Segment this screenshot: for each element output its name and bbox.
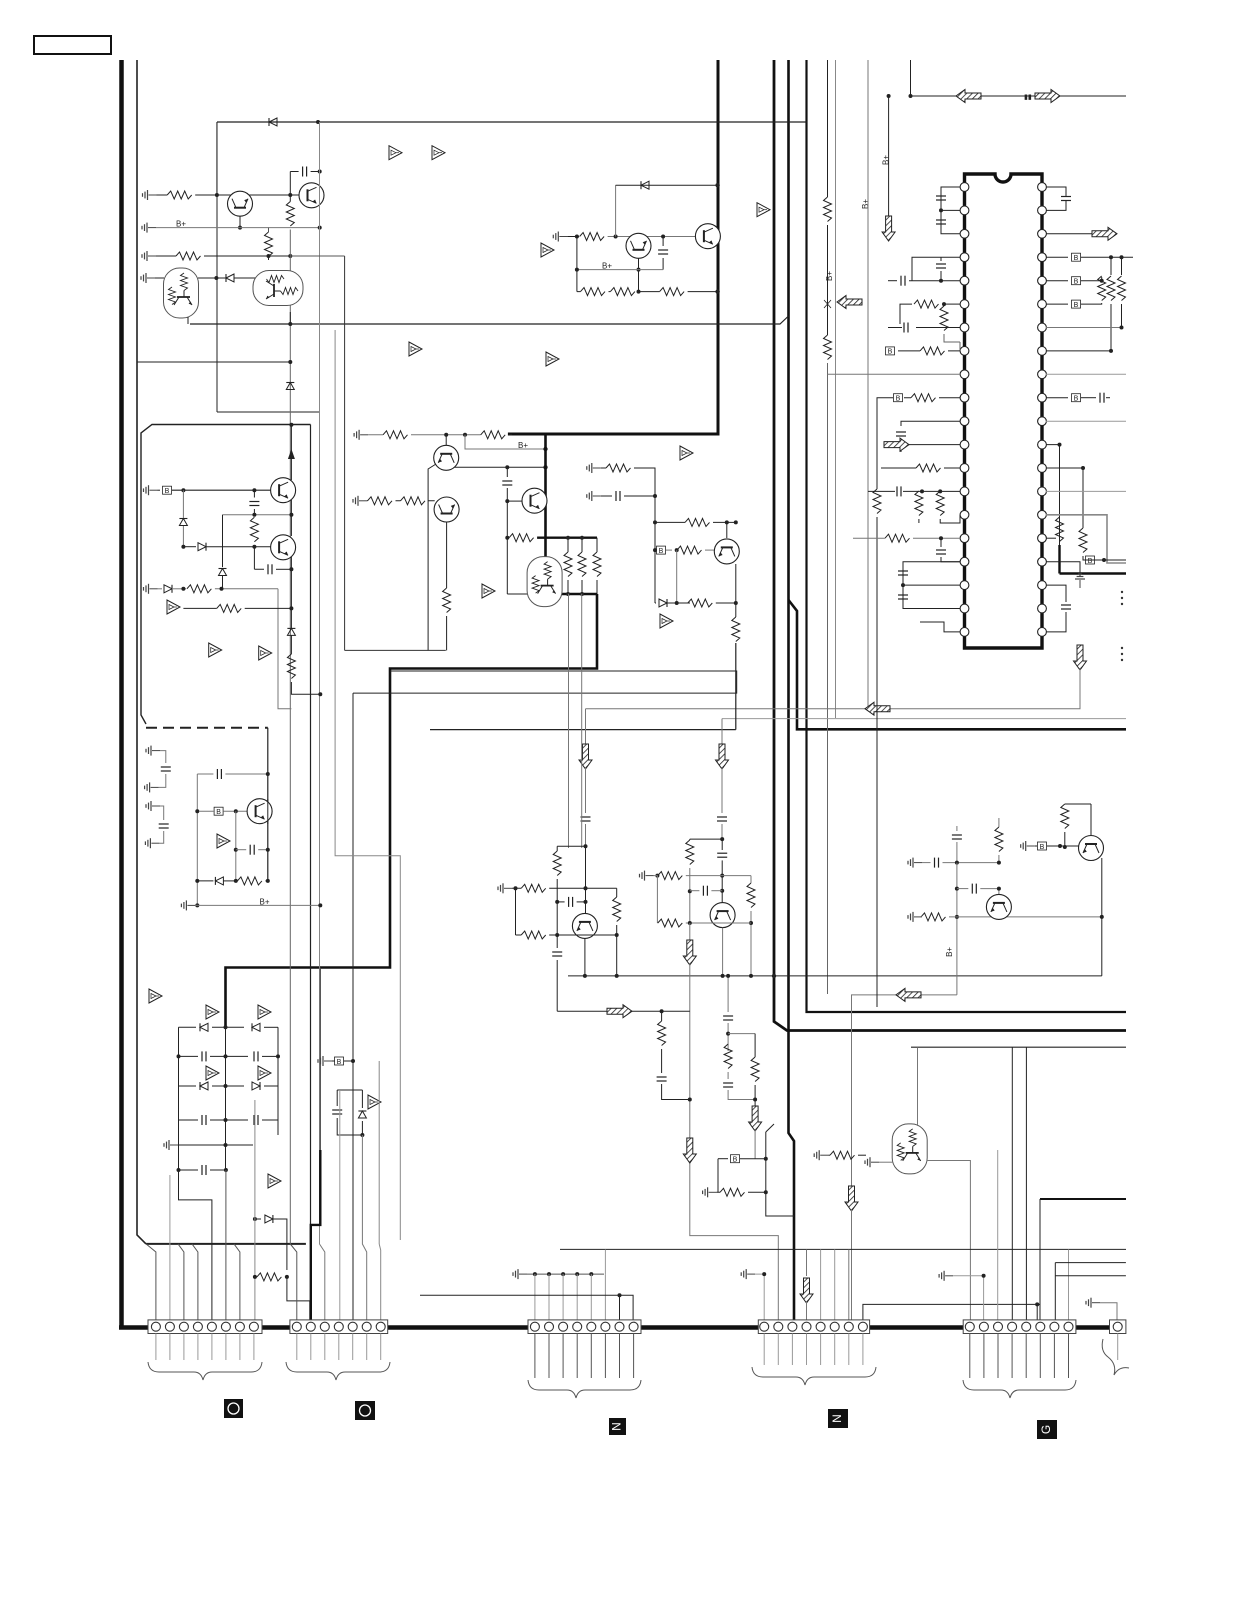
resistor R4 vertical inline xyxy=(289,172,291,202)
wire bottom bus thick xyxy=(119,1325,1126,1330)
resistor R32 pin8 xyxy=(920,347,945,355)
capacitor C11 xyxy=(936,220,946,224)
resistor R63 vertical xyxy=(998,818,1000,827)
capacitor C33 xyxy=(957,888,968,890)
wire Q13 emitter xyxy=(584,939,586,976)
capacitor C25 xyxy=(557,901,564,903)
wire C3 feed row xyxy=(527,1273,604,1275)
wire x690 down gray xyxy=(690,963,779,1320)
arrow down x690 xyxy=(683,940,696,965)
resistor R20 on bus F xyxy=(824,197,832,222)
wire B+ row xyxy=(156,227,320,229)
capacitor C45 row xyxy=(235,811,237,881)
resistor R1 xyxy=(167,191,192,199)
diode D12 xyxy=(252,1023,260,1031)
wire mid band y730 xyxy=(430,643,736,730)
wire thick rail to resistors xyxy=(537,537,597,539)
wire y976 left part xyxy=(568,975,751,977)
B+ cluster low xyxy=(718,1158,728,1160)
wire C1 pin drops from bus xyxy=(146,1244,156,1320)
resistor R45 vertical col xyxy=(556,846,558,851)
resistor R14 xyxy=(257,1273,282,1281)
arrow down x690 second xyxy=(683,1138,696,1163)
resistor R18 xyxy=(509,534,534,542)
transistor Q12 xyxy=(247,799,272,824)
capacitor C13 xyxy=(916,327,960,329)
ground chain 1 xyxy=(146,746,160,756)
wire gray y993 with left arrow xyxy=(852,995,957,1186)
transistor Q14 xyxy=(710,903,735,928)
diode D8 xyxy=(158,588,163,590)
wire pin r9 gray xyxy=(1046,373,1126,375)
connector CN3 xyxy=(528,1320,641,1334)
diode D15 row xyxy=(255,1218,261,1220)
arrow left on header xyxy=(956,90,981,103)
resistor R61 xyxy=(401,497,426,505)
resistor R29 vertical xyxy=(732,617,740,642)
wire long gray vertical from R3 row xyxy=(289,230,291,1245)
wire matrix exits xyxy=(179,1170,212,1320)
resistor R62 vertical xyxy=(616,888,618,897)
ground G23 C5 xyxy=(939,1271,953,1281)
transistor Q3 digital xyxy=(164,268,199,318)
wire top vertical bus A xyxy=(508,60,718,434)
wire Q17 out xyxy=(927,1161,970,1321)
wire C2 pin4 gray xyxy=(339,1090,341,1320)
B+ boxed mid xyxy=(654,549,655,551)
B+ boxed T14 xyxy=(1038,842,1047,851)
wire C4 pin7 xyxy=(848,1249,850,1320)
diode D7 xyxy=(222,515,224,567)
wire C4 pin8 via y1304 xyxy=(863,1304,1040,1320)
resistor R2 vertical xyxy=(268,228,270,232)
diode D1 on y122 xyxy=(269,118,277,126)
wire C5 pin8 xyxy=(1068,1249,1070,1320)
B+ boxed label xyxy=(158,489,161,491)
wire y1044 double xyxy=(911,1046,1126,1048)
wire C2 pin1 chamfer xyxy=(290,1244,297,1320)
wire box2 right edge xyxy=(267,728,269,881)
resistor R36 vertical xyxy=(936,491,944,516)
arrow left small x849 xyxy=(837,296,862,309)
wire Q11 base row xyxy=(183,546,196,548)
resistor R56 xyxy=(921,913,946,921)
transistor Q2 xyxy=(299,183,324,208)
wire y362 xyxy=(137,361,290,363)
ground G2 xyxy=(142,223,156,233)
diode D6 xyxy=(198,543,206,551)
ground chain 4 xyxy=(145,838,159,848)
resistor R54 vertical xyxy=(751,1057,759,1082)
wire C5 pin3 xyxy=(997,1150,999,1320)
transistor Q15 xyxy=(986,894,1011,919)
svg-text:B+: B+ xyxy=(861,199,870,209)
svg-text:B+: B+ xyxy=(825,271,834,281)
wire IC feeder x888 xyxy=(888,96,890,216)
resistor R3 xyxy=(176,252,201,260)
wire y1011 with arrow xyxy=(557,1010,607,1012)
wire pin r3 arrow xyxy=(1046,233,1092,235)
arrow right on header xyxy=(1035,90,1060,103)
ground G9 xyxy=(164,1140,178,1150)
capacitor C42 xyxy=(506,467,508,477)
wire pin r16 xyxy=(1046,537,1056,539)
capacitor C10 xyxy=(936,196,946,200)
wire gray pin2 C1 xyxy=(169,1175,171,1320)
wire pin r12 xyxy=(1046,445,1060,545)
svg-text:N: N xyxy=(610,1422,624,1431)
transistor Q6 xyxy=(695,224,720,249)
arrow tri pair box1 xyxy=(209,643,222,657)
ground G24 C6 xyxy=(1086,1298,1100,1308)
wire gray x379 xyxy=(378,1061,380,1244)
wire Q9 vertical x676 xyxy=(676,550,678,603)
label tag P3 xyxy=(609,1418,626,1435)
resistor R41 vertical xyxy=(1107,276,1115,301)
ground chain 3 xyxy=(146,801,160,811)
resistor R44 vertical xyxy=(1079,528,1087,553)
brace CN5 xyxy=(963,1380,1076,1398)
B+ branch xyxy=(465,435,546,449)
ground G10 xyxy=(354,430,368,440)
B+ pin r5 xyxy=(1046,280,1068,282)
wire Q20 emitter left xyxy=(428,464,436,650)
capacitor C23 xyxy=(601,495,612,497)
wire pin r7 xyxy=(1046,327,1122,329)
wire row B xyxy=(223,514,292,516)
capacitor C40 xyxy=(253,490,255,497)
wire diode branch xyxy=(615,185,617,236)
wire pin r17 ground xyxy=(1046,562,1080,576)
resistor R53 vertical xyxy=(724,1044,732,1069)
matrix frame verticals xyxy=(179,1027,279,1170)
wire C3 pin8 corner xyxy=(420,1295,633,1320)
capacitor C32 xyxy=(922,862,931,864)
capacitor C28 xyxy=(657,1077,667,1081)
ground G15 xyxy=(703,1187,717,1197)
wire pin4 stub xyxy=(912,257,960,281)
capacitor C21 xyxy=(1100,393,1104,403)
capacitor C41 xyxy=(254,547,264,570)
wire Q5 emitter xyxy=(638,258,640,291)
wire bottom rail xyxy=(507,593,532,595)
resistor R10 xyxy=(187,585,212,593)
wire Q12 rails xyxy=(267,799,269,824)
resistor R60 xyxy=(368,497,393,505)
ground G5 xyxy=(553,232,567,242)
resistor R21 on bus F xyxy=(824,335,832,360)
ground chain 2 xyxy=(145,782,159,792)
wire bus E branch xyxy=(789,600,1127,729)
capacitor C12 xyxy=(936,264,946,268)
resistor R23 vertical xyxy=(578,552,586,577)
wire long mid line y324 xyxy=(190,316,789,324)
resistor R5 xyxy=(567,236,579,238)
ground G4 xyxy=(141,273,155,283)
arrow tri xyxy=(368,1095,381,1109)
wire x765 connect xyxy=(766,1132,794,1216)
ground G1 xyxy=(143,190,157,200)
arrow tri xyxy=(660,614,673,628)
wire left rail xyxy=(576,237,578,292)
wire C2 pin3 xyxy=(320,1244,325,1320)
resistor R22 vertical xyxy=(564,552,572,577)
label tag P4 xyxy=(828,1409,848,1428)
arrow below IC xyxy=(1074,645,1087,670)
ground G11 xyxy=(587,463,601,473)
capacitor C31 x755 xyxy=(754,1034,756,1057)
wire Q10 collector up arrow xyxy=(290,425,292,480)
wire pin11 cap xyxy=(901,421,960,426)
capacitor C22 xyxy=(1061,605,1071,609)
resistor R46 xyxy=(521,884,546,892)
diode D11 xyxy=(179,1026,197,1028)
wire C4 pin5 arrow xyxy=(806,1249,808,1276)
wire thin vertical F xyxy=(827,60,829,197)
resistor R16 xyxy=(481,431,506,439)
ground G14 xyxy=(640,871,654,881)
brace CN6 xyxy=(1102,1339,1129,1375)
arrow tri box2 xyxy=(217,834,230,848)
wire Q13 bottom row xyxy=(516,888,522,935)
arrow tri xyxy=(167,600,180,614)
B+ boxed diode label xyxy=(214,807,223,816)
capacitor C16 xyxy=(936,550,946,554)
arrow left y708 xyxy=(865,702,890,715)
resistor R31 vertical xyxy=(940,306,948,331)
ground xyxy=(1075,574,1085,588)
wire CN1 tails xyxy=(156,1334,254,1361)
arrow tri scatter top xyxy=(389,146,402,160)
resistor R49 vertical xyxy=(750,876,752,883)
resistor R57 vertical xyxy=(1061,804,1069,829)
diode D16 xyxy=(358,1111,366,1118)
wire C3 pin verticals xyxy=(535,1274,606,1320)
wire CN5 tails xyxy=(970,1334,1069,1379)
resistor R51 vertical xyxy=(661,1011,663,1021)
wire C2 pin6 xyxy=(362,1135,366,1320)
wire top feed to header line xyxy=(911,60,1127,96)
title box xyxy=(34,36,111,54)
ground G22 C4 xyxy=(741,1269,755,1279)
label tag P5 xyxy=(1037,1420,1057,1439)
B+ pin r10 xyxy=(1046,397,1068,399)
diode D17 xyxy=(655,602,656,604)
capacitor C29 x727 xyxy=(727,976,729,1012)
wire thick branch r16 xyxy=(1060,545,1127,574)
B+ boxed r16 xyxy=(1086,556,1095,565)
connector CN5 xyxy=(963,1320,1076,1334)
wire thick collector rail vertical xyxy=(544,435,547,566)
wire C2 pin5 xyxy=(352,1244,354,1320)
wire thick feed to matrix xyxy=(226,594,598,1027)
arrow tri matrix xyxy=(149,989,162,1003)
brace CN3 xyxy=(528,1380,641,1398)
wire CN2 tails xyxy=(297,1334,381,1361)
transistor Q1 xyxy=(228,191,253,216)
resistor R25 xyxy=(606,464,631,472)
wire pin9 xyxy=(828,373,961,375)
wire right pin1-2 bracket xyxy=(1046,187,1066,210)
wire B+ row mid xyxy=(577,269,663,271)
wire box1 right edge long xyxy=(310,425,312,1245)
wire Q21 emitter chain xyxy=(446,522,448,588)
diode D5 xyxy=(179,519,187,526)
wire mid band y650 xyxy=(345,256,446,650)
wire top vertical bus B xyxy=(774,60,1126,1031)
wire Q4 down xyxy=(289,312,291,324)
wire thin vertical H gray xyxy=(867,60,869,710)
wire pin20 step xyxy=(920,622,960,632)
wire y905 B+ xyxy=(195,904,320,906)
resistor R42 vertical xyxy=(1118,276,1126,301)
capacitor C7 xyxy=(254,1115,258,1125)
brace CN4 xyxy=(752,1367,876,1385)
wire C2 pin7 xyxy=(379,1244,381,1320)
wire main left border thick xyxy=(119,60,124,1327)
diode D9 xyxy=(287,628,295,635)
capacitor C6 xyxy=(179,1119,199,1121)
wire top vertical bus C xyxy=(789,60,795,1320)
resistor R7 xyxy=(610,288,635,296)
resistor R13 xyxy=(237,877,262,885)
B+ label pin8 xyxy=(886,347,895,356)
transistor Q4 digital xyxy=(253,271,303,306)
wire left pin1-3 bracket xyxy=(941,187,960,234)
wire x957 xyxy=(956,863,958,995)
ground G17 xyxy=(908,912,922,922)
transistor Q11 xyxy=(271,535,296,560)
arrow tri center xyxy=(482,584,495,598)
resistor R27 xyxy=(677,546,702,554)
wire Q9 emitter down xyxy=(735,564,737,617)
box1 outline xyxy=(141,425,311,725)
wire Q14 base row xyxy=(656,876,658,923)
transistor Q13 xyxy=(585,846,587,914)
svg-text:B+: B+ xyxy=(945,947,954,957)
wire gray mid vertical xyxy=(335,330,400,1240)
diode D13 xyxy=(179,1085,197,1087)
resistor R11 row E xyxy=(183,607,216,609)
op-amp U1 IC body xyxy=(965,174,1043,648)
resistor R35 vertical xyxy=(915,491,923,516)
wire CN4 tails xyxy=(764,1334,863,1366)
capacitor C1 xyxy=(290,171,298,173)
wire y1249 long xyxy=(560,1248,1126,1250)
wire pin r15 xyxy=(1046,515,1126,563)
wire y412 horizontal xyxy=(217,411,320,413)
capacitor C20 xyxy=(1061,197,1071,201)
wire gray feed pin8 xyxy=(254,1100,256,1320)
capacitor C44 vertical xyxy=(956,826,958,831)
B+ label xyxy=(176,220,186,229)
transistor Q9 xyxy=(714,539,739,564)
transistor Q10 xyxy=(271,478,296,503)
resistor R8 xyxy=(660,288,685,296)
wire top long line y122 xyxy=(217,121,807,123)
wire Q14 top bracket xyxy=(690,838,722,840)
wire inner left vertical xyxy=(137,60,146,1244)
capacitor C30 xyxy=(723,1083,733,1087)
svg-text:B+: B+ xyxy=(882,155,891,165)
resistor R33 pin10 xyxy=(911,394,936,402)
ground G20 resistor xyxy=(814,1150,828,1160)
transistor Q20 xyxy=(434,445,459,470)
capacitor C17 xyxy=(898,571,908,575)
B+ pin r6 xyxy=(1046,303,1068,305)
ground G3 xyxy=(142,251,156,261)
wire top vertical bus D xyxy=(807,60,1127,1012)
arrow down x851 xyxy=(845,1186,858,1211)
IC U1 pins left column xyxy=(960,183,969,637)
wire thin vertical G gray xyxy=(835,60,837,718)
diode D2 xyxy=(198,277,261,279)
diode D10 row xyxy=(197,880,213,882)
wire left rail cluster2 xyxy=(654,496,656,603)
wire mid band y693 xyxy=(353,671,737,693)
wire Q14 emitter xyxy=(722,928,724,976)
diode D4 xyxy=(641,181,649,189)
svg-text:N: N xyxy=(830,1414,844,1423)
wire thin y973 full xyxy=(751,975,1102,977)
transistor Q17 digital xyxy=(892,1124,927,1174)
wire gray drop arrows pair xyxy=(585,709,587,744)
transistor Q8 digital oval xyxy=(527,557,562,607)
svg-text:▮▮: ▮▮ xyxy=(1024,94,1032,101)
wire x690 gray down xyxy=(689,923,691,940)
wire to C2 pin2 xyxy=(287,1277,310,1320)
wire C4 pins gray xyxy=(821,1249,835,1320)
wire x507 down xyxy=(506,501,508,594)
wire pin r14 gray xyxy=(1046,490,1126,492)
transistor Q7 xyxy=(522,488,547,513)
connector CN2 xyxy=(290,1320,388,1334)
ground G8 xyxy=(181,900,195,910)
transistor Q5 xyxy=(626,233,651,258)
resistor R34 pin13 xyxy=(916,464,941,472)
capacitor C2 xyxy=(662,237,664,247)
capacitor C4 xyxy=(179,1055,199,1057)
ground G19 xyxy=(865,1157,879,1167)
resistor R6 xyxy=(581,288,606,296)
IC U1 pins right column xyxy=(1038,183,1047,637)
transistor Q21 xyxy=(434,497,459,522)
capacitor C18 xyxy=(898,595,908,599)
connector CN6 xyxy=(1110,1320,1126,1334)
label tag P2 xyxy=(355,1401,375,1420)
capacitor C3 top row xyxy=(197,773,213,775)
wire CN3 tails xyxy=(535,1334,634,1379)
wire pin r8 xyxy=(1046,350,1111,352)
capacitor C9 loop xyxy=(337,1090,362,1135)
capacitor C14 xyxy=(896,432,906,436)
resistor R58 xyxy=(830,1151,855,1159)
wire Q3 to y324 xyxy=(187,317,189,324)
wire row D corner down xyxy=(278,589,291,709)
wire gray pair y711 xyxy=(586,656,1081,709)
transistor Q16 xyxy=(1079,836,1104,861)
capacitor C27 xyxy=(690,890,700,892)
wire Q13 top bracket xyxy=(557,845,585,847)
resistor R17 vertical xyxy=(443,588,451,613)
resistor R43 vertical xyxy=(1056,517,1064,542)
wire pins17-19 bracket xyxy=(903,562,960,609)
B+ pin r4 xyxy=(1046,256,1068,258)
capacitor C43 xyxy=(721,839,723,850)
wire x346 from R3 row xyxy=(290,255,344,257)
arrow down x755 xyxy=(749,1106,762,1131)
diode D14 xyxy=(252,1082,260,1090)
